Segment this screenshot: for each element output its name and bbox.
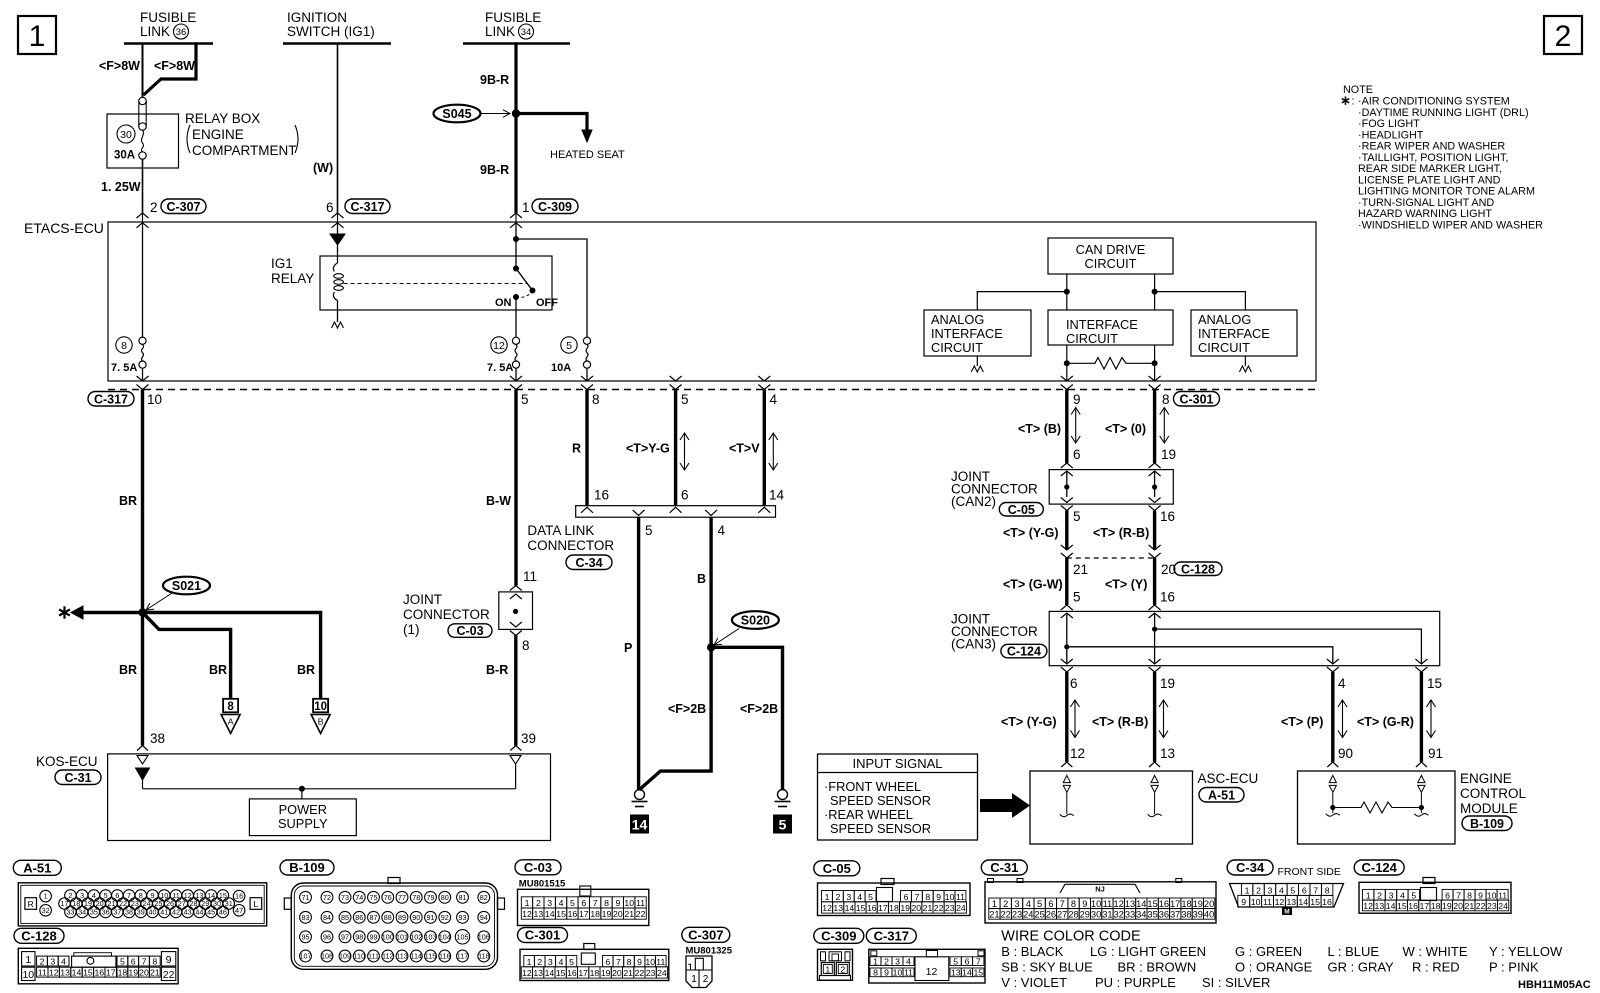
svg-text:3: 3 xyxy=(895,956,900,966)
svg-text:21: 21 xyxy=(623,968,633,978)
svg-text:43: 43 xyxy=(184,907,192,916)
svg-text:R: R xyxy=(28,899,34,909)
svg-text:8: 8 xyxy=(152,956,157,966)
svg-text:99: 99 xyxy=(370,932,378,941)
svg-text:HBH11M05AC: HBH11M05AC xyxy=(1518,979,1591,991)
svg-text:L: L xyxy=(254,899,259,909)
svg-text:3: 3 xyxy=(548,957,553,967)
svg-text:24: 24 xyxy=(657,968,667,978)
svg-text:16: 16 xyxy=(1322,897,1332,907)
svg-text:2: 2 xyxy=(1256,885,1261,895)
svg-text:40: 40 xyxy=(149,907,157,916)
svg-text:21: 21 xyxy=(624,909,634,919)
svg-text:9B-R: 9B-R xyxy=(480,73,509,87)
svg-text:<T> (P): <T> (P) xyxy=(1281,715,1323,729)
svg-text:30: 30 xyxy=(1091,909,1101,919)
svg-text:8: 8 xyxy=(227,701,234,713)
svg-text:2: 2 xyxy=(1003,899,1008,909)
svg-text:GR : GRAY: GR : GRAY xyxy=(1328,960,1395,975)
svg-text:111: 111 xyxy=(368,952,379,961)
svg-text:17: 17 xyxy=(878,903,888,913)
svg-text:12: 12 xyxy=(1114,899,1124,909)
svg-text:76: 76 xyxy=(384,893,392,902)
svg-text:23: 23 xyxy=(1487,901,1497,911)
svg-text:INTERFACE: INTERFACE xyxy=(1198,326,1270,341)
svg-text:15: 15 xyxy=(856,903,866,913)
svg-text:<T> (Y-G): <T> (Y-G) xyxy=(1003,526,1059,540)
svg-text:4: 4 xyxy=(61,956,66,966)
svg-text:12: 12 xyxy=(522,968,532,978)
svg-text:<F>2B: <F>2B xyxy=(740,702,778,716)
svg-text:9: 9 xyxy=(1478,890,1483,900)
svg-text:14: 14 xyxy=(545,909,555,919)
svg-text:5: 5 xyxy=(566,340,572,352)
svg-text:15: 15 xyxy=(1310,897,1320,907)
svg-text:LG : LIGHT GREEN: LG : LIGHT GREEN xyxy=(1090,944,1206,959)
svg-text:95: 95 xyxy=(302,932,310,941)
svg-text:41: 41 xyxy=(160,907,168,916)
svg-text:90: 90 xyxy=(412,913,420,922)
svg-text:·WINDSHIELD WIPER AND WASHER: ·WINDSHIELD WIPER AND WASHER xyxy=(1358,219,1543,231)
svg-text:110: 110 xyxy=(354,952,365,961)
svg-text:105: 105 xyxy=(457,932,469,941)
svg-text:80: 80 xyxy=(441,893,449,902)
svg-text:82: 82 xyxy=(480,893,488,902)
svg-text:20: 20 xyxy=(1204,899,1214,909)
svg-text:12: 12 xyxy=(49,967,59,977)
svg-text:·TURN-SIGNAL LIGHT AND: ·TURN-SIGNAL LIGHT AND xyxy=(1358,197,1494,209)
svg-text:1: 1 xyxy=(44,892,48,901)
svg-text:ASC-ECU: ASC-ECU xyxy=(1198,771,1259,786)
svg-text:16: 16 xyxy=(1159,899,1169,909)
svg-text:·REAR WHEEL: ·REAR WHEEL xyxy=(824,807,913,822)
svg-text:34: 34 xyxy=(1136,909,1146,919)
svg-text:C-05: C-05 xyxy=(823,861,851,876)
svg-text:14: 14 xyxy=(1386,901,1396,911)
svg-text:11: 11 xyxy=(904,968,913,978)
svg-text:BR : BROWN: BR : BROWN xyxy=(1118,960,1197,975)
svg-text:C-03: C-03 xyxy=(524,860,552,875)
svg-text:97: 97 xyxy=(341,932,349,941)
svg-text:4: 4 xyxy=(1400,890,1405,900)
svg-text:INTERFACE: INTERFACE xyxy=(1066,317,1138,332)
svg-text:9: 9 xyxy=(166,954,172,966)
svg-text:C-31: C-31 xyxy=(990,860,1018,875)
svg-text:34: 34 xyxy=(78,907,86,916)
svg-text:G : GREEN: G : GREEN xyxy=(1235,944,1302,959)
svg-text:47: 47 xyxy=(235,906,243,915)
svg-text:32: 32 xyxy=(42,906,50,915)
svg-text:6: 6 xyxy=(965,956,970,966)
svg-text:1: 1 xyxy=(1366,890,1371,900)
svg-text:2: 2 xyxy=(536,898,541,908)
svg-text:16: 16 xyxy=(1160,590,1175,605)
svg-text:85: 85 xyxy=(341,913,349,922)
svg-text:11: 11 xyxy=(1103,899,1113,909)
svg-text:8: 8 xyxy=(1325,885,1330,895)
svg-text:91: 91 xyxy=(1428,746,1443,761)
svg-text:B: B xyxy=(697,572,706,586)
svg-text:10: 10 xyxy=(893,968,903,978)
svg-text:14: 14 xyxy=(632,817,648,833)
svg-text:15: 15 xyxy=(973,968,983,978)
svg-text:CIRCUIT: CIRCUIT xyxy=(931,340,983,355)
svg-text:C-124: C-124 xyxy=(1361,860,1397,875)
svg-text:O : ORANGE: O : ORANGE xyxy=(1235,960,1313,975)
svg-text:118: 118 xyxy=(478,952,489,961)
svg-text:2: 2 xyxy=(40,956,45,966)
svg-text:22: 22 xyxy=(635,968,645,978)
svg-text:8: 8 xyxy=(873,968,878,978)
svg-text:C-307: C-307 xyxy=(166,200,200,214)
svg-text:75: 75 xyxy=(370,893,378,902)
svg-text:23: 23 xyxy=(1012,909,1022,919)
svg-text:37: 37 xyxy=(113,907,121,916)
svg-text:C-317: C-317 xyxy=(94,392,128,406)
svg-text:13: 13 xyxy=(951,968,961,978)
svg-text:30: 30 xyxy=(120,129,132,141)
svg-text:4: 4 xyxy=(718,523,726,538)
svg-text:8: 8 xyxy=(1071,899,1076,909)
svg-text:PU : PURPLE: PU : PURPLE xyxy=(1095,975,1176,990)
svg-text:POWER: POWER xyxy=(279,802,327,817)
svg-text:14: 14 xyxy=(1136,899,1146,909)
svg-text:87: 87 xyxy=(370,913,378,922)
svg-text:<T>Y-G: <T>Y-G xyxy=(626,442,670,456)
svg-text:3: 3 xyxy=(846,892,851,902)
svg-text:5: 5 xyxy=(681,392,689,407)
svg-text:ON: ON xyxy=(495,297,512,309)
svg-text:7: 7 xyxy=(142,956,147,966)
svg-text:46: 46 xyxy=(219,907,227,916)
svg-text:<T> (0): <T> (0) xyxy=(1105,422,1146,436)
svg-text:5: 5 xyxy=(1411,890,1416,900)
svg-text:3: 3 xyxy=(1389,890,1394,900)
svg-text:16: 16 xyxy=(568,909,578,919)
svg-text:B: B xyxy=(318,717,324,727)
svg-text:92: 92 xyxy=(441,913,449,922)
svg-text:6: 6 xyxy=(1302,885,1307,895)
svg-text:77: 77 xyxy=(398,893,406,902)
svg-text:6: 6 xyxy=(581,898,586,908)
svg-text:5: 5 xyxy=(1073,590,1081,605)
svg-text:BR: BR xyxy=(297,663,315,677)
svg-text:HEATED SEAT: HEATED SEAT xyxy=(550,149,625,161)
svg-text:16: 16 xyxy=(567,968,577,978)
svg-text:19: 19 xyxy=(900,903,910,913)
svg-text:31: 31 xyxy=(1102,909,1112,919)
svg-text:<F>2B: <F>2B xyxy=(668,702,706,716)
svg-text:88: 88 xyxy=(384,913,392,922)
svg-text:IG1: IG1 xyxy=(271,256,293,271)
svg-text:107: 107 xyxy=(300,952,312,961)
svg-text:HAZARD WARNING LIGHT: HAZARD WARNING LIGHT xyxy=(1358,208,1492,220)
svg-text:86: 86 xyxy=(355,913,363,922)
svg-text:14: 14 xyxy=(962,968,972,978)
svg-text:14: 14 xyxy=(545,968,555,978)
svg-text:<F>8W: <F>8W xyxy=(154,59,195,73)
svg-text:4: 4 xyxy=(1279,885,1284,895)
svg-text:19: 19 xyxy=(1442,901,1452,911)
svg-text:C-03: C-03 xyxy=(456,624,483,638)
svg-text:LICENSE PLATE LIGHT AND: LICENSE PLATE LIGHT AND xyxy=(1358,174,1501,186)
svg-text:6: 6 xyxy=(1070,676,1078,691)
svg-text:42: 42 xyxy=(172,907,180,916)
svg-text:Y : YELLOW: Y : YELLOW xyxy=(1489,944,1563,959)
svg-text:30A: 30A xyxy=(114,150,135,162)
svg-text:21: 21 xyxy=(150,967,160,977)
svg-text:SPEED SENSOR: SPEED SENSOR xyxy=(830,821,931,836)
svg-text:S021: S021 xyxy=(172,579,201,593)
svg-text:A-51: A-51 xyxy=(1208,788,1235,802)
svg-text:4: 4 xyxy=(559,898,564,908)
svg-text:1: 1 xyxy=(525,898,530,908)
svg-text:1: 1 xyxy=(873,956,878,966)
svg-text:20: 20 xyxy=(1453,901,1463,911)
svg-text:C-309: C-309 xyxy=(821,928,856,943)
svg-text:(CAN3): (CAN3) xyxy=(951,637,996,652)
svg-text:18: 18 xyxy=(1431,901,1441,911)
svg-text:(CAN2): (CAN2) xyxy=(951,494,996,509)
svg-text:10: 10 xyxy=(945,892,955,902)
svg-text:<T> (G-R): <T> (G-R) xyxy=(1357,715,1414,729)
svg-text:29: 29 xyxy=(1080,909,1090,919)
svg-text:NOTE: NOTE xyxy=(1343,84,1373,96)
svg-text:3: 3 xyxy=(1268,885,1273,895)
svg-text:LIGHTING MONITOR TONE ALARM: LIGHTING MONITOR TONE ALARM xyxy=(1358,186,1535,198)
svg-text:11: 11 xyxy=(636,898,645,908)
svg-text:17: 17 xyxy=(1170,899,1180,909)
svg-text:10: 10 xyxy=(1091,899,1101,909)
svg-text:109: 109 xyxy=(339,952,351,961)
svg-text:FUSIBLE: FUSIBLE xyxy=(140,10,196,25)
svg-text:1: 1 xyxy=(25,954,31,966)
svg-text:C-34: C-34 xyxy=(1236,860,1265,875)
svg-text:11: 11 xyxy=(1263,897,1272,907)
svg-text:5: 5 xyxy=(120,956,125,966)
svg-text:13: 13 xyxy=(1125,899,1135,909)
svg-text:·DAYTIME RUNNING LIGHT (DRL): ·DAYTIME RUNNING LIGHT (DRL) xyxy=(1358,107,1529,119)
svg-text:89: 89 xyxy=(398,913,406,922)
svg-text::: : xyxy=(1352,96,1355,108)
svg-text:44: 44 xyxy=(195,907,203,916)
svg-text:18: 18 xyxy=(590,909,600,919)
svg-text:S020: S020 xyxy=(741,613,770,627)
svg-text:26: 26 xyxy=(1046,909,1056,919)
svg-text:8: 8 xyxy=(925,892,930,902)
svg-text:74: 74 xyxy=(355,893,363,902)
svg-text:C-301: C-301 xyxy=(1179,392,1213,406)
svg-text:13: 13 xyxy=(534,909,544,919)
svg-text:21: 21 xyxy=(1073,562,1088,577)
svg-text:C-317: C-317 xyxy=(350,200,384,214)
svg-text:14: 14 xyxy=(845,903,855,913)
svg-text:V : VIOLET: V : VIOLET xyxy=(1001,975,1067,990)
svg-text:R : RED: R : RED xyxy=(1412,960,1460,975)
svg-text:7. 5A: 7. 5A xyxy=(487,362,513,374)
svg-text:72: 72 xyxy=(323,893,331,902)
svg-text:<T> (R-B): <T> (R-B) xyxy=(1092,715,1148,729)
svg-text:<T>V: <T>V xyxy=(729,442,760,456)
svg-text:6: 6 xyxy=(326,200,334,215)
svg-text:C-317: C-317 xyxy=(874,928,909,943)
svg-text:5: 5 xyxy=(645,523,653,538)
svg-text:35: 35 xyxy=(1147,909,1157,919)
svg-text:113: 113 xyxy=(396,952,407,961)
svg-text:SI : SILVER: SI : SILVER xyxy=(1202,975,1270,990)
svg-text:ETACS-ECU: ETACS-ECU xyxy=(24,220,104,236)
svg-text:C-128: C-128 xyxy=(21,928,56,943)
svg-text:W : WHITE: W : WHITE xyxy=(1403,944,1468,959)
svg-text:10A: 10A xyxy=(551,362,571,374)
svg-text:13: 13 xyxy=(1375,901,1385,911)
svg-text:·REAR WIPER AND WASHER: ·REAR WIPER AND WASHER xyxy=(1358,141,1505,153)
svg-text:15: 15 xyxy=(1397,901,1407,911)
svg-text:8: 8 xyxy=(627,957,632,967)
svg-text:2: 2 xyxy=(835,892,840,902)
svg-text:<T> (B): <T> (B) xyxy=(1018,422,1061,436)
svg-text:R: R xyxy=(572,442,581,456)
svg-text:CONNECTOR: CONNECTOR xyxy=(527,538,614,553)
svg-text:1: 1 xyxy=(527,957,532,967)
svg-text:1: 1 xyxy=(1245,885,1250,895)
svg-text:10: 10 xyxy=(314,701,327,713)
svg-text:DATA LINK: DATA LINK xyxy=(527,523,594,538)
svg-text:15: 15 xyxy=(556,968,566,978)
svg-text:14: 14 xyxy=(769,488,785,503)
svg-text:B-W: B-W xyxy=(486,494,511,508)
svg-text:<T> (R-B): <T> (R-B) xyxy=(1093,526,1149,540)
svg-text:NJ: NJ xyxy=(1095,885,1105,894)
svg-text:P: P xyxy=(624,641,632,655)
svg-text:21: 21 xyxy=(923,903,933,913)
svg-text:C-34: C-34 xyxy=(575,556,602,570)
svg-text:40: 40 xyxy=(1204,909,1214,919)
svg-text:38: 38 xyxy=(1181,909,1191,919)
svg-text:9: 9 xyxy=(615,898,620,908)
svg-text:94: 94 xyxy=(480,913,488,922)
svg-text:MODULE: MODULE xyxy=(1460,801,1518,816)
svg-text:4: 4 xyxy=(770,392,778,407)
svg-text:93: 93 xyxy=(459,913,467,922)
svg-text:7: 7 xyxy=(1313,885,1318,895)
svg-text:13: 13 xyxy=(833,903,843,913)
svg-text:C-31: C-31 xyxy=(64,771,91,785)
svg-text:MU801515: MU801515 xyxy=(519,879,566,890)
svg-text:WIRE COLOR CODE: WIRE COLOR CODE xyxy=(1001,929,1141,945)
svg-text:1: 1 xyxy=(691,974,697,985)
svg-text:7: 7 xyxy=(616,957,621,967)
svg-text:16: 16 xyxy=(1408,901,1418,911)
svg-text:5: 5 xyxy=(1073,509,1081,524)
svg-text:9: 9 xyxy=(1073,392,1081,407)
svg-text:39: 39 xyxy=(521,731,536,746)
svg-text:·FRONT WHEEL: ·FRONT WHEEL xyxy=(824,779,921,794)
svg-text:32: 32 xyxy=(1114,909,1124,919)
svg-text:CONTROL: CONTROL xyxy=(1460,786,1526,801)
svg-text:17: 17 xyxy=(579,909,589,919)
svg-text:5: 5 xyxy=(569,957,574,967)
svg-text:106: 106 xyxy=(478,932,490,941)
svg-text:16: 16 xyxy=(235,892,243,901)
svg-text:12: 12 xyxy=(822,903,832,913)
svg-text:18: 18 xyxy=(1181,899,1191,909)
svg-text:1: 1 xyxy=(29,20,46,53)
svg-text:<F>8W: <F>8W xyxy=(99,59,140,73)
svg-text:10: 10 xyxy=(1487,890,1497,900)
svg-text:19: 19 xyxy=(1161,447,1176,462)
svg-text:71: 71 xyxy=(302,893,310,902)
svg-text:C-309: C-309 xyxy=(538,200,572,214)
svg-text:21: 21 xyxy=(1465,901,1475,911)
svg-text:CONNECTOR: CONNECTOR xyxy=(403,607,490,622)
svg-text:36: 36 xyxy=(102,907,110,916)
svg-text:·HEADLIGHT: ·HEADLIGHT xyxy=(1358,129,1424,141)
svg-text:CIRCUIT: CIRCUIT xyxy=(1085,256,1137,271)
svg-text:8: 8 xyxy=(604,898,609,908)
svg-text:16: 16 xyxy=(867,903,877,913)
svg-text:14: 14 xyxy=(1298,897,1308,907)
svg-text:C-05: C-05 xyxy=(1008,503,1035,517)
svg-text:FRONT SIDE: FRONT SIDE xyxy=(1278,866,1341,878)
svg-text:23: 23 xyxy=(945,903,955,913)
svg-text:ANALOG: ANALOG xyxy=(931,312,984,327)
svg-text:9B-R: 9B-R xyxy=(480,163,509,177)
svg-text:4: 4 xyxy=(1338,676,1346,691)
svg-text:3: 3 xyxy=(547,898,552,908)
svg-text:S045: S045 xyxy=(442,107,471,121)
svg-text:22: 22 xyxy=(934,903,944,913)
svg-text:6: 6 xyxy=(131,956,136,966)
svg-text:12: 12 xyxy=(1275,897,1285,907)
svg-text:23: 23 xyxy=(646,968,656,978)
svg-text:16: 16 xyxy=(1160,509,1175,524)
svg-text:15: 15 xyxy=(1427,676,1442,691)
svg-text:(W): (W) xyxy=(313,161,333,175)
svg-text:15: 15 xyxy=(1147,899,1157,909)
svg-text:6: 6 xyxy=(1445,890,1450,900)
svg-text:10: 10 xyxy=(645,957,655,967)
svg-text:103: 103 xyxy=(425,932,437,941)
svg-text:11: 11 xyxy=(38,967,47,977)
svg-text:4: 4 xyxy=(558,957,563,967)
svg-text:2: 2 xyxy=(884,956,889,966)
svg-text:<T> (G-W): <T> (G-W) xyxy=(1003,578,1063,592)
svg-text:OFF: OFF xyxy=(536,297,558,309)
svg-text:9: 9 xyxy=(884,968,889,978)
svg-text:5: 5 xyxy=(953,956,958,966)
svg-text:RELAY BOX: RELAY BOX xyxy=(185,111,260,126)
svg-text:102: 102 xyxy=(410,932,422,941)
svg-text:112: 112 xyxy=(382,952,393,961)
svg-text:ENGINE: ENGINE xyxy=(192,127,244,142)
svg-text:10: 10 xyxy=(22,969,34,981)
svg-text:73: 73 xyxy=(341,893,349,902)
svg-text:19: 19 xyxy=(128,967,138,977)
svg-text:B-109: B-109 xyxy=(289,860,324,875)
svg-text:101: 101 xyxy=(396,932,408,941)
svg-text:13: 13 xyxy=(60,967,70,977)
svg-text:SPEED SENSOR: SPEED SENSOR xyxy=(830,793,931,808)
svg-text:2: 2 xyxy=(703,974,709,985)
svg-text:9: 9 xyxy=(1241,897,1246,907)
svg-text:11: 11 xyxy=(1498,890,1507,900)
svg-text:39: 39 xyxy=(137,907,145,916)
svg-text:11: 11 xyxy=(956,892,965,902)
svg-text:98: 98 xyxy=(355,932,363,941)
svg-text:(1): (1) xyxy=(403,622,420,637)
svg-text:L : BLUE: L : BLUE xyxy=(1328,944,1380,959)
